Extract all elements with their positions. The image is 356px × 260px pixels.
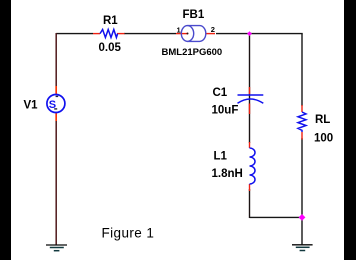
wire top horizontal from left corner to R1 <box>56 33 93 35</box>
svg-text:100: 100 <box>314 133 333 145</box>
resistor R1 pin right (red) <box>117 33 125 35</box>
capacitor C1 curved plate <box>238 99 264 103</box>
wire right vertical RL branch upper <box>301 34 303 106</box>
wire left vertical V1 branch <box>55 33 57 245</box>
ground right <box>292 245 313 251</box>
source V1 circle <box>47 95 65 113</box>
ferrite bead FB1 pin 1 (red) <box>176 33 188 35</box>
inductor L1 coil <box>250 148 256 184</box>
junction node at bottom right <box>299 214 306 221</box>
wire top horizontal from FB1 to right corner <box>216 33 303 35</box>
wire middle vertical C1-L1 branch upper <box>249 34 251 143</box>
inductor L1 pin top (red) <box>249 142 251 148</box>
source V1 minus mark <box>54 108 57 109</box>
svg-text:1.8nH: 1.8nH <box>212 168 243 180</box>
svg-text:L1: L1 <box>214 151 228 163</box>
capacitor C1 top plate <box>238 94 264 96</box>
svg-text:1: 1 <box>177 26 181 35</box>
svg-text:V1: V1 <box>24 100 39 112</box>
source V1 pin top (red) <box>55 86 57 95</box>
resistor RL pin top (red) <box>301 105 303 112</box>
wire bottom horizontal L1 to right junction <box>250 216 303 218</box>
wire top horizontal from R1 to FB1 <box>124 33 176 35</box>
FB1 pin 1 center dot <box>187 33 189 35</box>
ferrite bead FB1 body (cylinder) <box>181 26 206 42</box>
junction node at top of C1 branch <box>247 31 252 36</box>
wire right ground stem <box>301 217 303 244</box>
svg-text:R1: R1 <box>103 15 118 27</box>
svg-text:0.05: 0.05 <box>99 42 122 54</box>
svg-text:FB1: FB1 <box>183 9 205 21</box>
svg-text:RL: RL <box>315 114 330 126</box>
wire right vertical RL branch lower <box>301 138 303 217</box>
resistor R1 zigzag <box>100 30 118 38</box>
resistor R1 pin left (red) <box>93 33 100 35</box>
svg-text:BML21PG600: BML21PG600 <box>162 47 223 58</box>
svg-text:C1: C1 <box>213 87 228 99</box>
svg-text:2: 2 <box>211 25 215 34</box>
wire middle vertical C1-L1 branch lower <box>249 189 251 218</box>
resistor RL pin bottom (red) <box>301 132 303 140</box>
inductor L1 pin bottom (red) <box>249 184 251 191</box>
source V1 plus mark <box>56 96 59 97</box>
capacitor C1 pin top (red) <box>249 87 251 94</box>
resistor RL zigzag <box>298 112 306 132</box>
svg-text:Figure 1: Figure 1 <box>102 226 155 241</box>
ferrite bead FB1 pin 2 (red) <box>206 33 215 35</box>
source V1 pin bottom (red) <box>55 113 57 122</box>
svg-text:10uF: 10uF <box>212 105 239 117</box>
capacitor C1 pin bottom (red) <box>249 104 251 115</box>
ground left <box>46 245 67 251</box>
